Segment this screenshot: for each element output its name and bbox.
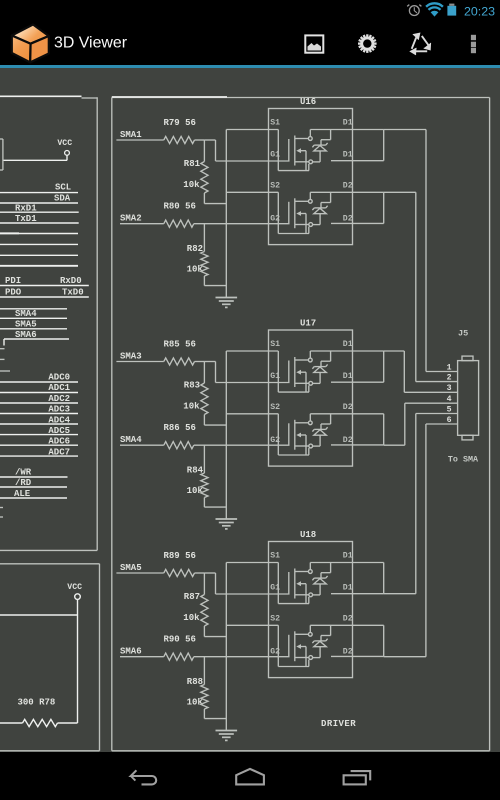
svg-text:U17: U17 xyxy=(300,319,316,329)
wire to gate G2 xyxy=(194,444,290,446)
wire xyxy=(0,243,78,245)
svg-text:S1: S1 xyxy=(270,551,280,560)
svg-text:SMA5: SMA5 xyxy=(15,320,37,330)
svg-text:S2: S2 xyxy=(270,182,280,191)
source bus wire xyxy=(225,351,227,519)
resistor R84 10k xyxy=(187,445,227,507)
svg-text:D2: D2 xyxy=(343,615,353,624)
wire D1 top xyxy=(310,129,383,131)
svg-text:D2: D2 xyxy=(343,436,353,445)
net label SMA4 xyxy=(120,435,164,445)
wire S2 xyxy=(226,625,309,666)
svg-text:5: 5 xyxy=(447,405,452,414)
status bar wifi icon xyxy=(426,3,443,16)
bus label SMA4 xyxy=(0,309,67,319)
ground xyxy=(216,731,238,741)
svg-text:S1: S1 xyxy=(270,340,280,349)
pin SCL xyxy=(0,183,78,193)
label To SMA xyxy=(448,455,479,465)
svg-text:D1: D1 xyxy=(343,551,353,560)
driver sheet frame xyxy=(112,98,490,751)
power symbol VCC (left sheet) xyxy=(3,139,72,161)
svg-text:ADC0: ADC0 xyxy=(48,372,70,382)
wire S1 xyxy=(226,351,309,392)
wire U18 D2 to J5 pin6 xyxy=(384,424,458,657)
net label SMA6 xyxy=(120,647,164,657)
wire xyxy=(195,139,205,141)
resistor R89 56 xyxy=(164,551,196,577)
svg-text:SDA: SDA xyxy=(54,194,71,204)
resistor R87 10k xyxy=(183,573,226,637)
wire S2 xyxy=(226,414,309,455)
svg-text:S1: S1 xyxy=(270,118,280,127)
pin ADC3 xyxy=(0,405,78,415)
svg-text:4: 4 xyxy=(447,395,452,404)
action icon: settings gear xyxy=(358,34,377,53)
mosfet U18a xyxy=(289,563,313,604)
nav recents button xyxy=(344,771,371,784)
pin TxD1 xyxy=(0,214,79,224)
wire stub xyxy=(0,370,10,372)
wire xyxy=(112,96,227,98)
svg-text:SMA5: SMA5 xyxy=(120,563,142,573)
ground xyxy=(216,298,238,308)
svg-text:SMA4: SMA4 xyxy=(120,435,142,445)
wire to gate G2 xyxy=(194,223,290,225)
svg-text:D1: D1 xyxy=(343,340,353,349)
svg-text:R79 56: R79 56 xyxy=(164,118,196,128)
wire D2 top xyxy=(310,191,383,193)
svg-text:SMA3: SMA3 xyxy=(120,352,142,362)
pin ADC7 xyxy=(0,447,78,457)
svg-text:R80 56: R80 56 xyxy=(164,202,196,212)
svg-text:2: 2 xyxy=(447,374,452,383)
pin ADC0 xyxy=(0,372,78,382)
wire D2 top xyxy=(310,624,383,626)
svg-text:D2: D2 xyxy=(343,647,353,656)
wire stub xyxy=(0,516,3,518)
resistor R85 56 xyxy=(164,339,196,365)
status bar battery icon xyxy=(447,4,456,16)
pin PDO / TxD0 xyxy=(0,288,89,298)
svg-text:10k: 10k xyxy=(183,401,200,411)
zener diode of U18b xyxy=(312,625,330,657)
svg-text:3: 3 xyxy=(447,384,452,393)
resistor R81 10k xyxy=(183,140,226,204)
component box at left edge xyxy=(0,139,3,170)
wire xyxy=(0,254,78,256)
wire D2 top xyxy=(310,413,383,415)
net label SMA5 xyxy=(116,563,163,573)
opto relay U16 xyxy=(269,97,353,244)
svg-text:SMA6: SMA6 xyxy=(120,647,142,657)
svg-text:D2: D2 xyxy=(343,182,353,191)
zener diode of U16a xyxy=(312,130,330,162)
wire D1 bottom xyxy=(331,130,384,161)
mosfet U16b xyxy=(289,192,313,233)
wire D1 top xyxy=(310,350,383,352)
wire U16 D2 to J5 pin2 xyxy=(384,192,458,381)
svg-text:1: 1 xyxy=(447,363,452,372)
svg-text:/WR: /WR xyxy=(15,468,32,478)
svg-text:D1: D1 xyxy=(343,150,353,159)
svg-text:S2: S2 xyxy=(270,403,280,412)
nav back button xyxy=(131,770,156,784)
wire xyxy=(4,339,69,346)
wire to gate G1 xyxy=(204,140,289,161)
wire xyxy=(195,361,205,363)
svg-text:U18: U18 xyxy=(300,530,316,540)
pin /RD xyxy=(0,478,67,488)
wire U16 D1 to J5 pin1 xyxy=(384,130,458,372)
wire S2 xyxy=(226,192,309,233)
svg-text:R86 56: R86 56 xyxy=(164,423,196,433)
power symbol VCC (lower-left) xyxy=(67,583,82,604)
wire D1 bottom xyxy=(331,351,384,382)
zener diode of U17b xyxy=(312,414,330,446)
wire xyxy=(195,572,205,574)
wire to gate G1 xyxy=(204,362,289,383)
resistor R83 10k xyxy=(183,362,226,426)
wire xyxy=(0,232,78,234)
zener diode of U17a xyxy=(312,351,330,383)
svg-text:To SMA: To SMA xyxy=(448,455,479,465)
svg-text:J5: J5 xyxy=(458,328,468,338)
svg-text:10k: 10k xyxy=(183,613,200,623)
mosfet U18b xyxy=(289,625,313,666)
svg-text:20:23: 20:23 xyxy=(464,5,495,19)
left sheet frame xyxy=(0,96,97,550)
opto relay U18 xyxy=(269,530,353,677)
pin ADC4 xyxy=(0,415,78,425)
app logo orange 3D cube xyxy=(12,25,49,63)
wire S1 xyxy=(226,563,309,604)
wire U17 D2 to J5 pin4 xyxy=(384,403,458,445)
wire U17 D1 to J5 pin3 xyxy=(384,351,458,392)
mosfet U17a xyxy=(289,351,313,392)
pin ADC1 xyxy=(0,383,78,393)
ground xyxy=(216,519,238,529)
svg-text:PDI: PDI xyxy=(5,276,21,286)
resistor R82 10k xyxy=(187,224,227,286)
status bar alarm clock icon xyxy=(407,5,421,16)
svg-text:R90 56: R90 56 xyxy=(164,635,196,645)
net label SMA3 xyxy=(116,352,163,362)
svg-text:6: 6 xyxy=(447,416,452,425)
nav home button xyxy=(236,769,264,785)
resistor R90 56 xyxy=(164,635,196,661)
wire D2 bottom xyxy=(331,625,384,656)
wire S1 xyxy=(226,130,309,171)
svg-text:SMA1: SMA1 xyxy=(120,130,142,140)
svg-text:SMA2: SMA2 xyxy=(120,214,142,224)
svg-text:R85 56: R85 56 xyxy=(164,339,196,349)
action icon: overflow menu xyxy=(471,35,476,53)
wire xyxy=(77,604,79,723)
wire D2 bottom xyxy=(331,414,384,445)
resistor R86 56 xyxy=(164,423,196,449)
resistor R78 300 xyxy=(0,697,78,726)
resistor R88 10k xyxy=(187,657,227,719)
pin ADC5 xyxy=(0,426,78,436)
resistor R80 56 xyxy=(164,202,196,228)
action icon: rotate/recycle triangle xyxy=(410,33,430,55)
svg-text:S2: S2 xyxy=(270,615,280,624)
zener diode of U18a xyxy=(312,563,330,595)
svg-text:R87: R87 xyxy=(184,592,200,602)
wire U18 D1 to J5 pin5 xyxy=(384,414,458,594)
svg-text:10k: 10k xyxy=(183,180,200,190)
resistor R79 56 xyxy=(164,118,196,144)
wire stub xyxy=(0,507,3,509)
label DRIVER xyxy=(321,719,356,729)
svg-text:D1: D1 xyxy=(343,583,353,592)
svg-text:ADC1: ADC1 xyxy=(48,383,70,393)
svg-text:300 R78: 300 R78 xyxy=(18,697,56,707)
lower-left sheet frame xyxy=(0,564,100,751)
svg-text:RxD0: RxD0 xyxy=(60,276,82,286)
source bus wire xyxy=(225,563,227,731)
mosfet U16a xyxy=(289,130,313,171)
zener diode of U16b xyxy=(312,192,330,224)
wire D1 bottom xyxy=(331,563,384,594)
net label SMA2 xyxy=(120,214,164,224)
svg-text:DRIVER: DRIVER xyxy=(321,719,356,729)
net label SMA1 xyxy=(116,130,163,140)
svg-text:R89 56: R89 56 xyxy=(164,551,196,561)
action icon: image/screenshot xyxy=(305,35,323,52)
wire stub xyxy=(0,348,5,350)
svg-text:R81: R81 xyxy=(184,159,201,169)
wire to gate G1 xyxy=(204,573,289,594)
pin ADC6 xyxy=(0,437,78,447)
svg-text:SCL: SCL xyxy=(55,183,71,193)
svg-text:R83: R83 xyxy=(184,381,200,391)
svg-text:PDO: PDO xyxy=(5,288,22,298)
source bus wire xyxy=(225,130,227,298)
mosfet U17b xyxy=(289,414,313,455)
pin ADC2 xyxy=(0,394,78,404)
connector J5 xyxy=(447,328,479,440)
wire D2 bottom xyxy=(331,192,384,223)
bus label SMA5 xyxy=(0,318,67,329)
wire stub xyxy=(0,358,5,360)
svg-text:D2: D2 xyxy=(343,403,353,412)
svg-text:VCC: VCC xyxy=(67,583,82,592)
svg-text:D2: D2 xyxy=(343,214,353,223)
pin RxD1 xyxy=(0,204,79,214)
svg-text:D1: D1 xyxy=(343,118,353,127)
pin PDI / RxD0 xyxy=(0,276,89,286)
pin /WR xyxy=(0,468,68,478)
pin ALE xyxy=(0,489,67,499)
svg-text:TxD0: TxD0 xyxy=(62,288,84,298)
svg-text:3D Viewer: 3D Viewer xyxy=(54,34,128,51)
opto relay U17 xyxy=(269,319,353,466)
svg-text:VCC: VCC xyxy=(57,139,72,148)
wire xyxy=(0,614,78,616)
wire xyxy=(0,265,78,267)
wire D1 top xyxy=(310,562,383,564)
bus label SMA6 xyxy=(0,329,67,340)
pin SDA xyxy=(0,194,78,204)
svg-text:U16: U16 xyxy=(300,97,316,107)
svg-text:D1: D1 xyxy=(343,372,353,381)
wire to gate G2 xyxy=(194,656,290,658)
